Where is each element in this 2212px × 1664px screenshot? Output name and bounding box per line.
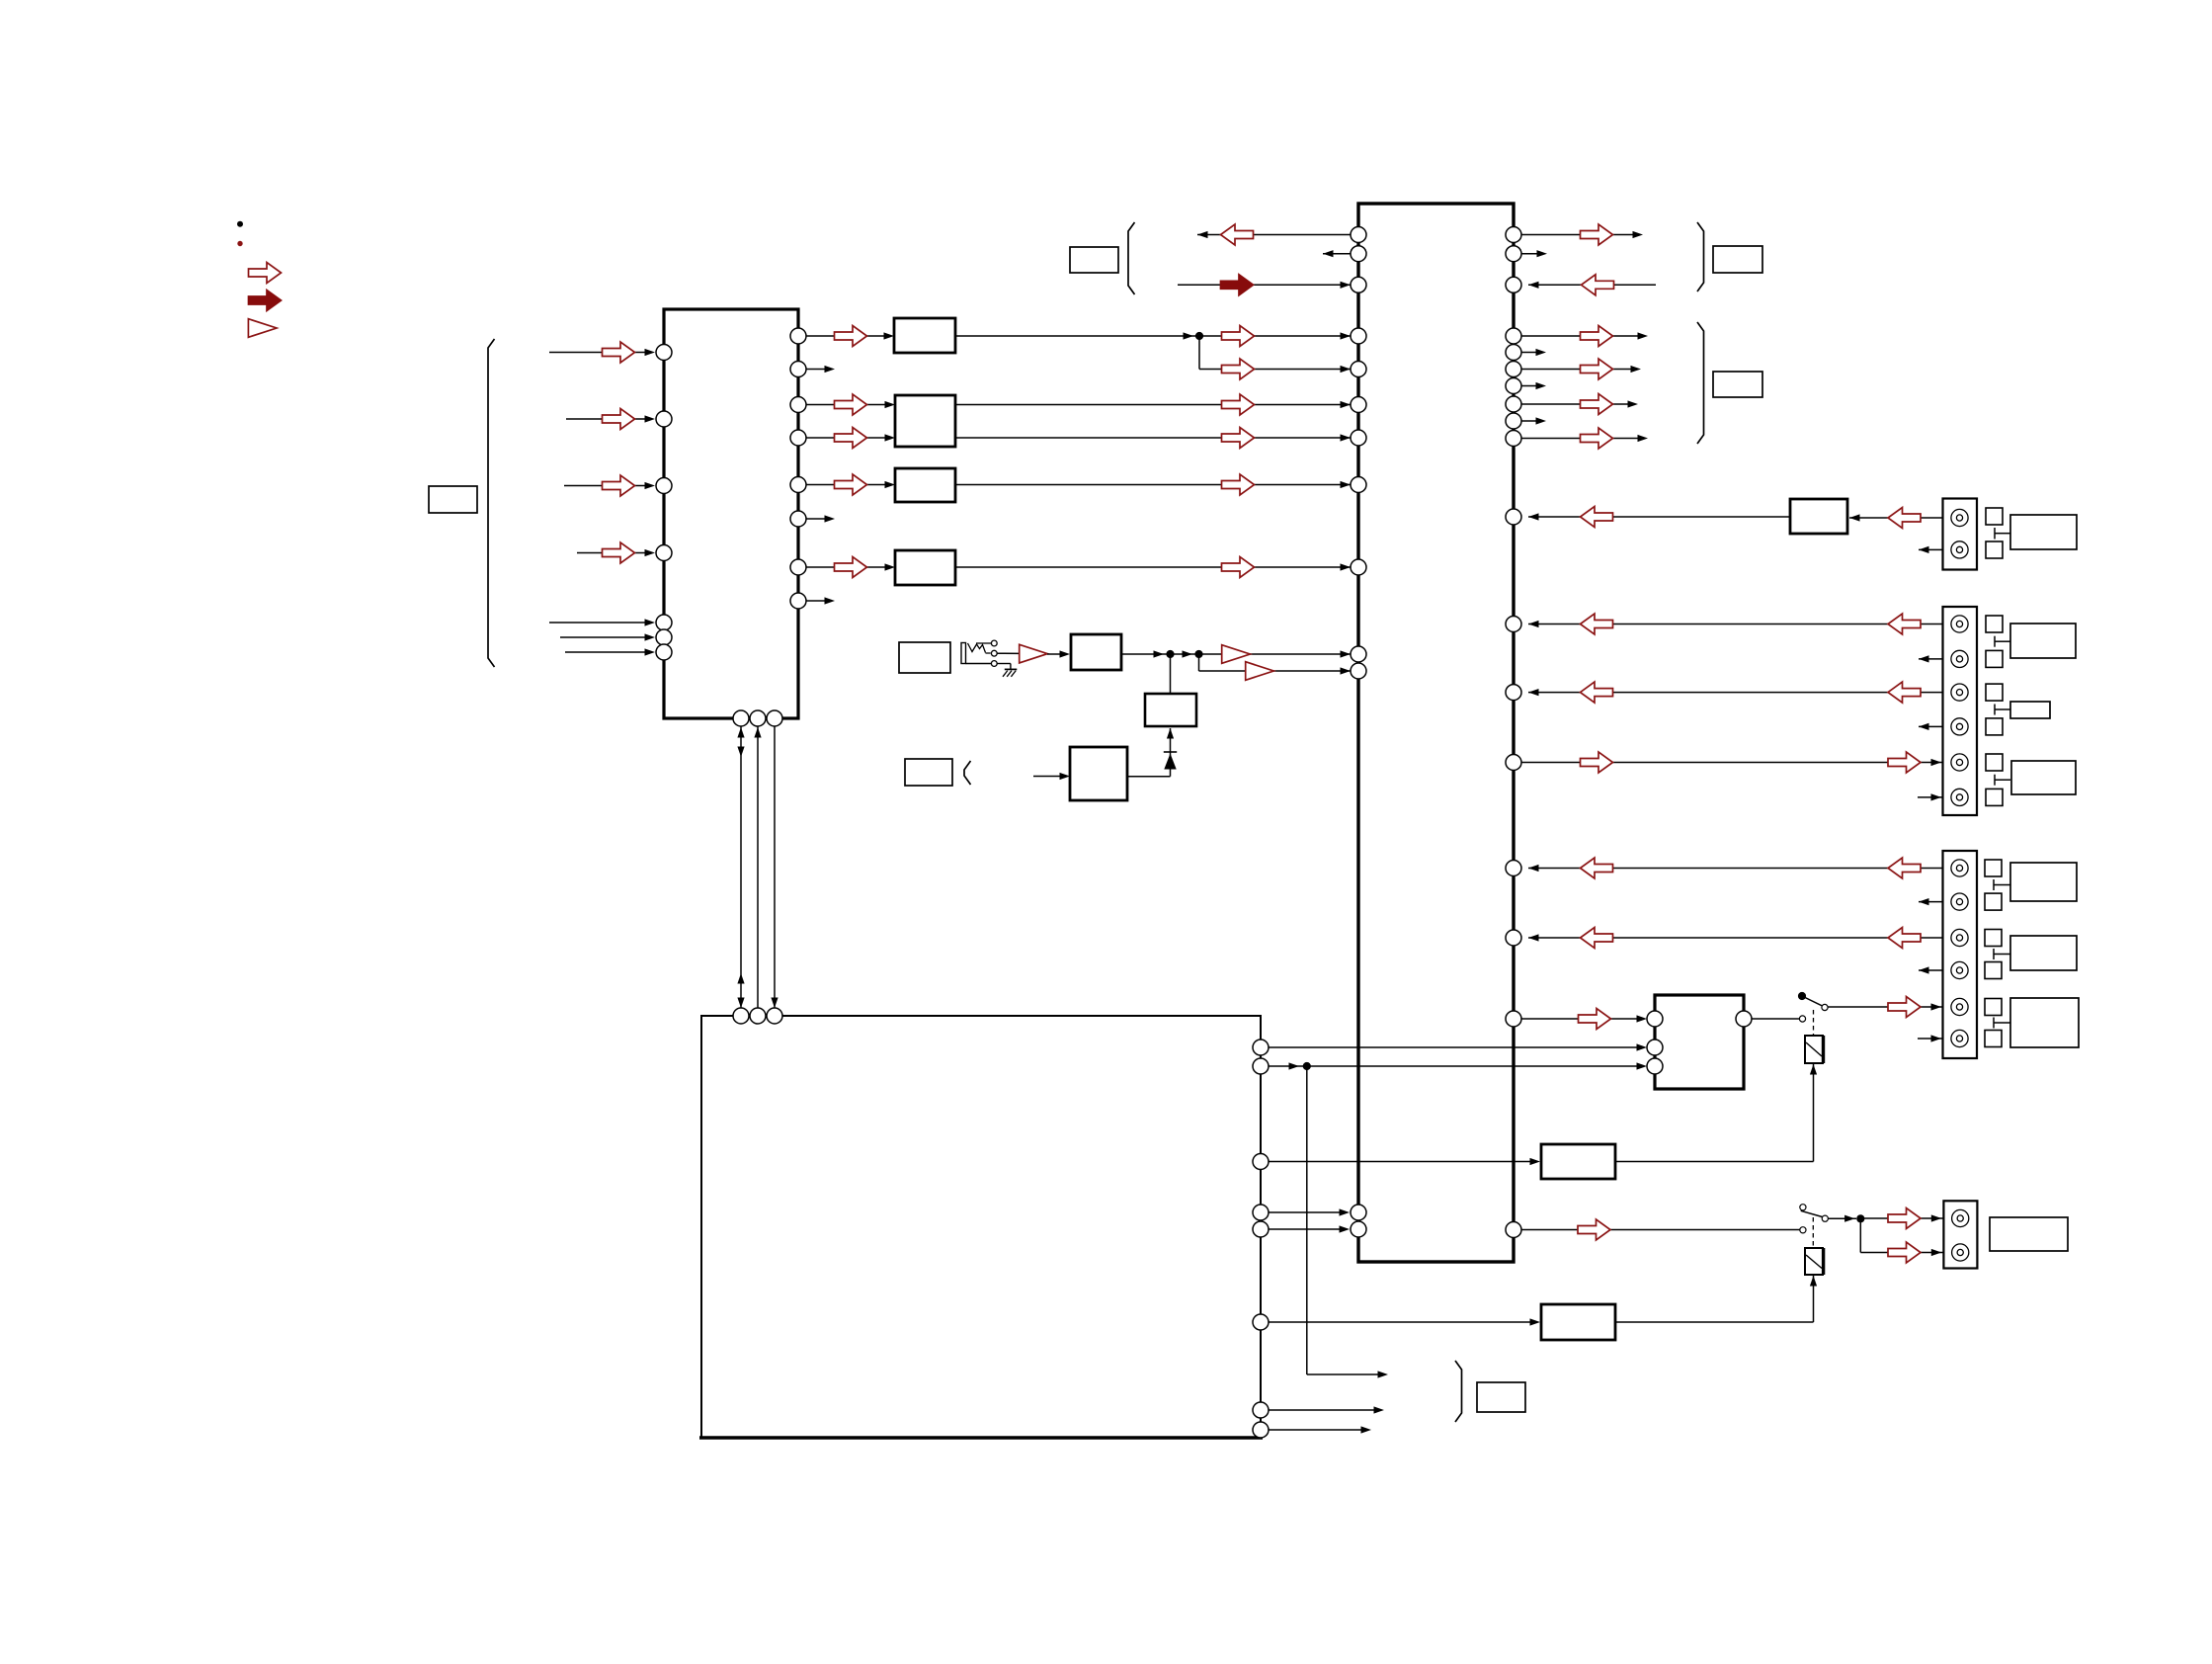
terminal T2f [1986,789,2003,805]
wire HP3 out [1127,776,1171,778]
wire U4 out [1752,1018,1799,1020]
pins U1 right [790,328,806,609]
wire U3 to U2 a [1269,1208,1350,1215]
wire U2 out-left [1197,224,1351,245]
wire stub U1 p2 [806,366,835,373]
switch SW2 [1800,1205,1829,1233]
terminal T3e [1985,999,2002,1016]
diode D1 [1164,752,1177,770]
connector CN2 [1943,607,1978,815]
legend amp triangle [248,319,277,338]
wire stub U3 e [1269,1406,1384,1413]
wire node C to J15 [1860,1208,1951,1229]
wire row B2 (FL2 to U2) [955,428,1351,449]
label box CN1 [2010,515,2077,549]
wire CTL2 [560,633,655,640]
wire bus3 (down) [771,726,778,1008]
wire U2 to U4 [1521,1009,1647,1030]
wire RY2 dashed [1812,1217,1814,1248]
legend open signal arrow [249,263,282,284]
wire bus1 (bidirectional) [737,726,744,1008]
relay RY1 [1805,1036,1824,1063]
wire stub U1 p8 [806,597,835,604]
wire row C (FL3 to U2) [955,474,1351,495]
wire U2 outR row7 [1521,428,1648,449]
wire row C (U1 to FL3) [806,474,895,495]
wire U2 out low [1521,1219,1800,1240]
jack J10 [1951,893,1968,910]
link CN3 pair3 [1994,1018,2010,1029]
wire stub J8 [1918,793,1950,800]
wire row A (FL1 to U2) [955,326,1351,347]
label box detector [905,759,971,786]
wire IN1 [549,342,655,363]
terminal T3b [1985,893,2002,910]
terminal T1a [1986,508,2003,525]
bracket U2 top-right [1697,222,1704,291]
wire U2 in J9 [1528,858,1950,878]
pins U3 right [1253,1040,1269,1438]
jack J13 [1951,998,1968,1015]
wire stub U2 pr2 [1521,250,1547,257]
wire row D (U1 to FL4) [806,557,895,578]
wire U3 to BT1 [1269,1158,1540,1165]
wire U2 in J11 [1528,928,1950,949]
terminal T3c [1985,930,2002,947]
label box U2 right group [1713,372,1762,397]
wire HP2 to node H1 [1170,658,1172,694]
wire stub J14 [1918,1035,1950,1041]
pins U3 top [733,1008,782,1024]
wire U2 in J5 [1528,682,1950,703]
block HP3 (detector) [1070,747,1127,800]
node A junction [1195,332,1203,340]
wire node C to J16 [1860,1218,1951,1263]
node B junction [1303,1062,1311,1070]
wire IN4 [577,542,655,563]
label box U3 stubs [1477,1382,1525,1412]
pins U1 bottom [733,710,782,726]
label box CN4 [1990,1217,2068,1251]
wire stub J6 [1919,723,1950,730]
label box U2 top-left [1070,247,1118,273]
filter FL4 [895,550,955,585]
link CN2 pair1 [1995,636,2010,647]
wire stub row4 [1521,382,1546,389]
jack J1 [1951,509,1968,526]
wire bus2 (up) [754,726,761,1008]
wire U2 in from AMP1 [1528,507,1790,528]
label box headphone [899,642,950,673]
headphone jack J10 [961,640,997,666]
wire RY1 coil [1810,1064,1817,1162]
wire U3 to U4 a [1269,1043,1647,1050]
label box input group [429,486,477,513]
legend bullet (black) [237,221,243,227]
wire U2 outR row5 [1521,394,1638,415]
label box CN2 b [2010,702,2050,718]
wire U2 outR row3 [1521,359,1641,379]
bracket U2 top-left [1128,222,1135,294]
link CN2 pair2 [1995,705,2010,715]
pins U4 [1647,1011,1752,1074]
wire row D (FL4 to U2) [955,557,1351,578]
jack J11 [1951,929,1968,946]
wire U2 in J3 [1528,614,1950,634]
label box U2 top-right [1713,246,1762,273]
label box CN2 c [2011,761,2076,794]
wire HP3 to HP2 [1167,728,1174,777]
jack J12 [1951,961,1968,978]
node C junction [1856,1214,1864,1222]
link CN1 [1995,528,2010,540]
node H2 [1194,650,1202,658]
wire U3 to BT2 [1269,1318,1540,1325]
filter FL1 [894,318,955,353]
terminal T2c [1986,684,2003,701]
wire row A (U1 out to filter FL1) [806,326,894,347]
wire SW1 to J13 [1828,997,1950,1018]
terminal T2d [1986,718,2003,735]
wire HP1 out [1121,645,1351,664]
jack J6 [1951,718,1968,735]
bracket U2 right group [1697,322,1704,444]
jack J8 [1951,789,1968,805]
wire IN2 [566,409,655,430]
block HP2 (mute) [1145,694,1196,726]
wire row B1 (FL2 to U2) [955,394,1351,415]
wire stub row6 [1521,417,1546,424]
legend filled signal arrow [249,291,282,311]
jack J16 [1952,1244,1969,1261]
wire stub row2 [1521,349,1546,356]
block AMP1 [1790,499,1847,534]
label box CN3 b [2010,936,2077,970]
jack J15 [1952,1209,1969,1226]
wire row A branch [1199,336,1351,379]
block HP1 (headphone amp) [1071,634,1121,670]
wire stub J12 [1919,966,1950,973]
block BT1 [1541,1144,1615,1179]
IC U1 (input selector) [664,309,798,718]
label box CN2 a [2010,624,2076,658]
pins U2 left [1351,227,1366,1238]
IC U4 (rec selector) [1655,995,1744,1089]
terminal T2b [1986,650,2003,667]
wire stub U2 p-left2 [1323,250,1351,257]
wire CTL3 [565,648,655,655]
filter FL2 [895,395,955,447]
wire BT2 to RY2 [1615,1276,1817,1322]
connector CN4 [1943,1201,1977,1268]
jack J5 [1951,684,1968,701]
wire row B2 (U1 to FL2) [806,428,895,449]
IC U2 (switching matrix) [1358,204,1514,1262]
terminal T3f [1985,1031,2002,1047]
switch SW1 [1798,992,1828,1022]
legend bullet (dark red) [237,241,242,246]
bracket U3 stubs [1455,1361,1462,1422]
ground [997,664,1017,677]
wire branch to U2 p2 [1199,654,1352,680]
terminal T1b [1986,541,2003,558]
jack J3 [1951,616,1968,632]
terminal T3a [1985,860,2002,876]
jack J4 [1951,650,1968,667]
IC U3 (main processor) [699,1016,1263,1438]
wire amp to HP1 [1047,650,1070,657]
pins U2 right [1506,227,1521,1238]
wire stub J4 [1919,655,1950,662]
connector CN3 [1943,851,1978,1058]
wire BT1 to RY1 [1615,1161,1814,1163]
terminal T2a [1986,616,2003,632]
wire CTL1 [549,619,655,625]
link CN2 pair3 [1995,775,2010,786]
wire U2 in-left (filled) [1178,275,1351,295]
terminal T3d [1985,962,2002,979]
wire SW1 dashed [1813,1010,1815,1036]
wire U3 to U4 b [1269,1062,1647,1069]
relay RY2 [1805,1248,1824,1275]
bracket input group [488,339,495,667]
wire SW2 to node C [1829,1215,1857,1222]
jack J14 [1951,1030,1968,1046]
wire stub U3 f [1269,1426,1371,1433]
amp A1 [997,644,1047,663]
jack J2 [1951,541,1968,558]
node H1 [1166,650,1174,658]
wire HP3 in [1033,773,1070,780]
jack J9 [1951,860,1968,876]
wire U3 to U2 b [1269,1225,1350,1232]
wire U2 out J7 [1521,752,1950,773]
wire U2 in-right1 [1528,275,1656,295]
link CN3 pair2 [1994,949,2010,959]
wire stub U1 p6 [806,515,835,522]
wire row B1 (U1 to FL2) [806,394,895,415]
terminal T2e [1986,754,2003,771]
connector CN1 [1943,499,1978,570]
jack J7 [1951,754,1968,771]
filter FL3 [895,468,955,502]
wire IN3 [564,475,655,496]
wire U2 out-right1 [1521,224,1643,245]
wire J1 to AMP1 [1849,508,1950,529]
wire stub J2 [1919,546,1950,553]
wire U2 outR row1 [1521,326,1648,347]
link CN3 pair1 [1994,879,2010,890]
label box CN3 a [2010,863,2077,901]
block BT2 [1541,1304,1615,1340]
pins U1 left [656,345,672,661]
wire node B drop [1307,1066,1388,1378]
label box CN3 c [2010,998,2079,1047]
wire stub J10b [1919,898,1950,905]
